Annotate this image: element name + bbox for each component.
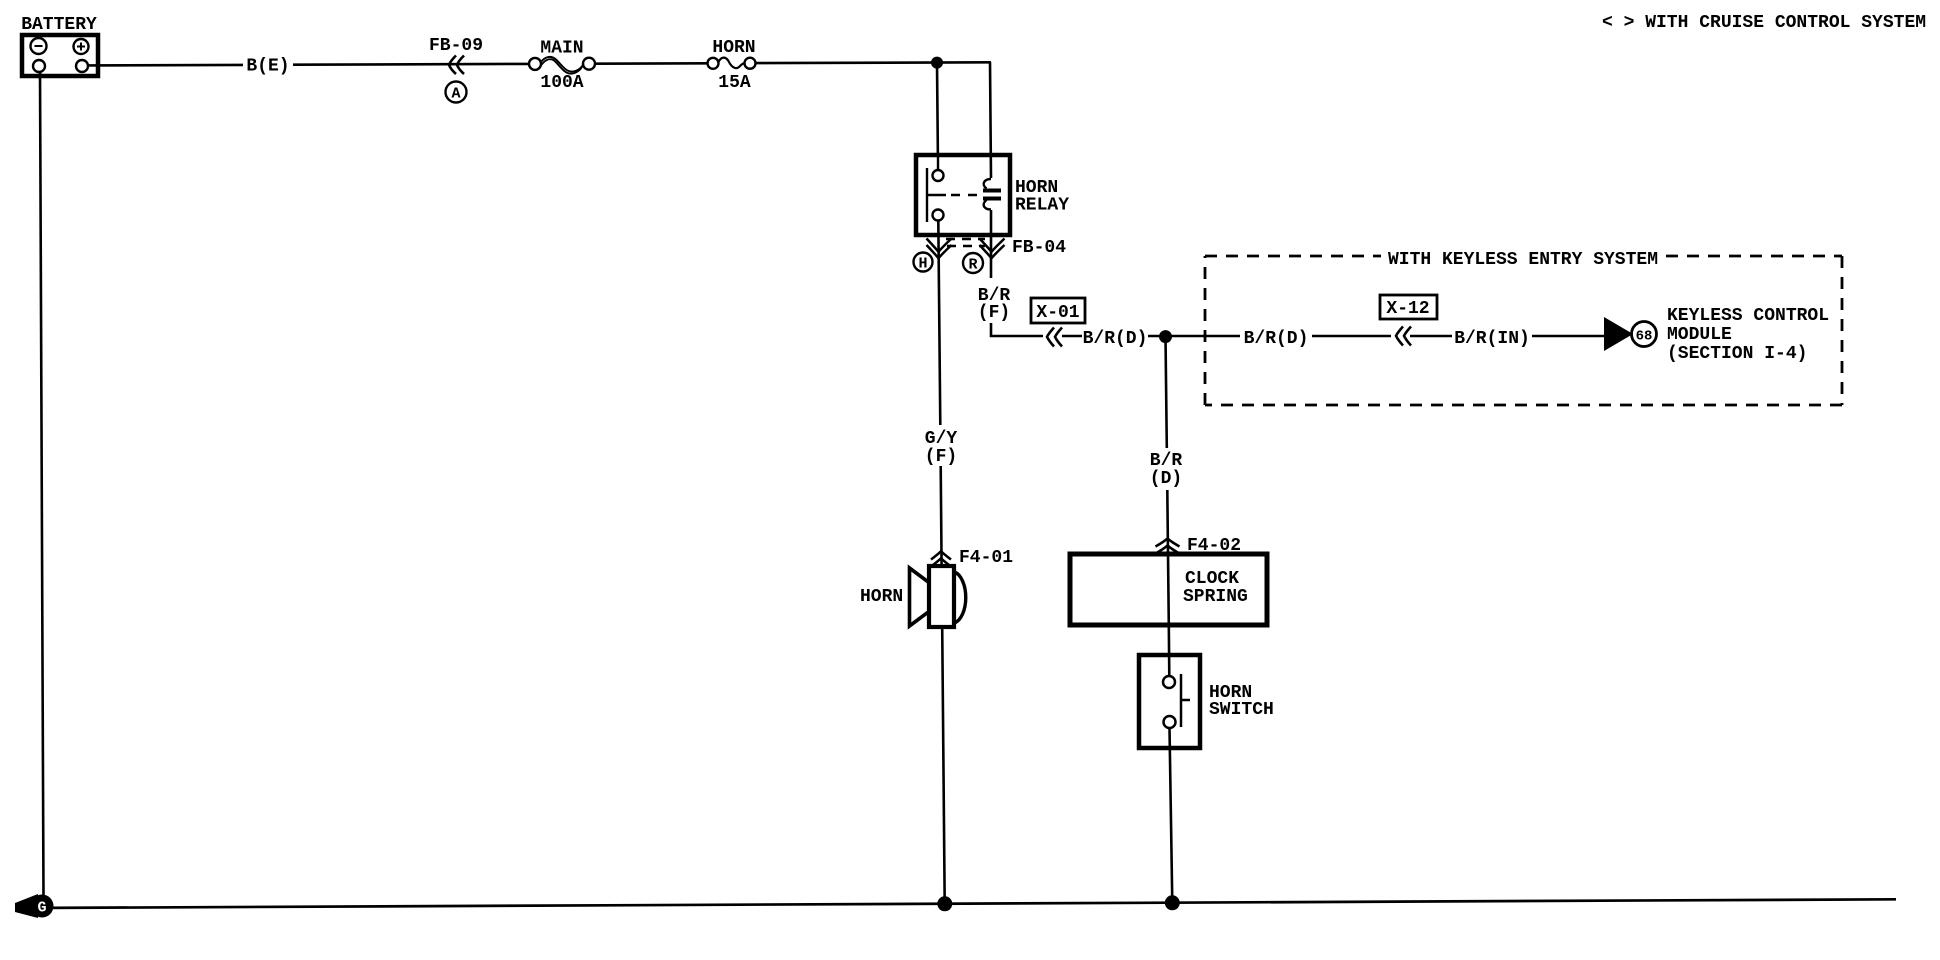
connector FB-04 [927,238,1067,258]
svg-text:HORN: HORN [860,587,903,607]
svg-text:(SECTION I-4): (SECTION I-4) [1667,344,1807,364]
svg-text:MODULE: MODULE [1667,325,1732,345]
svg-text:CLOCK: CLOCK [1185,569,1239,589]
svg-text:X-12: X-12 [1386,299,1429,319]
fuse HORN 15A [708,38,756,93]
fusible link MAIN 100A [529,39,595,94]
connector X-12 [1380,295,1437,346]
connector FB-09 [429,36,483,74]
wire horn switch to ground bus [1170,728,1173,903]
horn switch [1139,655,1274,748]
svg-text:X-01: X-01 [1036,303,1079,323]
svg-text:F4-01: F4-01 [959,548,1013,568]
connector X-01 [1031,298,1085,347]
wire label to F4-02 [1166,490,1169,554]
svg-text:(F): (F) [925,447,957,467]
node A [446,82,467,103]
wire B(E) to MAIN fuse [293,63,529,66]
ground bus wire [50,899,1896,908]
svg-text:WITH KEYLESS ENTRY SYSTEM: WITH KEYLESS ENTRY SYSTEM [1388,250,1658,270]
svg-text:B/R: B/R [1150,451,1183,471]
svg-text:B/R(D): B/R(D) [1083,329,1148,349]
wire battery negative to ground [40,72,44,896]
junction dot at relay branch [931,57,943,69]
connector F4-01 [931,548,1013,568]
svg-text:68: 68 [1636,329,1653,345]
wire coil to X-01 elbow [991,323,1043,336]
svg-text:KEYLESS CONTROL: KEYLESS CONTROL [1667,306,1829,326]
svg-text:(F): (F) [978,303,1010,323]
junction dot horn switch at ground bus [1165,895,1180,910]
svg-text:SWITCH: SWITCH [1209,700,1274,720]
wire junction down to relay contact [936,63,940,157]
wire junction down to clock spring [1166,337,1167,448]
wire label to horn [939,466,942,566]
wire to keyless module [1532,335,1606,338]
svg-text:MAIN: MAIN [540,39,583,59]
keyless control module label [1667,306,1829,364]
wire HORN fuse to relay branch [755,61,991,64]
wire horn to ground bus [942,627,945,904]
svg-text:100A: 100A [540,73,583,93]
wire MAIN fuse to HORN fuse [595,62,708,65]
wire battery positive to B(E) label [88,64,243,67]
svg-text:FB-09: FB-09 [429,36,483,56]
ground G [15,894,54,918]
svg-text:R: R [968,257,977,274]
dashed enclosure: with keyless entry system [1205,250,1842,405]
wire relay contact output down [938,220,940,425]
svg-text:G: G [37,900,46,917]
wire to relay coil [990,62,991,178]
horn [860,566,966,627]
svg-text:B/R(IN): B/R(IN) [1454,329,1530,349]
wire relay coil output down [990,210,993,278]
connector F4-02 [1156,536,1242,556]
battery B1 [21,15,98,76]
horn relay [916,155,1069,235]
wire to X-12 [1312,335,1391,338]
svg-text:G/Y: G/Y [925,429,958,449]
svg-text:15A: 15A [718,73,751,93]
svg-text:B(E): B(E) [246,57,289,77]
svg-text:BATTERY: BATTERY [21,15,97,35]
wire clock spring to horn switch [1168,625,1171,676]
svg-text:(D): (D) [1150,469,1182,489]
wire X-01 to label [1062,335,1082,338]
keyless control module input arrow [1604,317,1633,351]
svg-text:HORN: HORN [712,38,755,58]
svg-text:A: A [451,86,460,103]
svg-text:H: H [918,256,927,273]
svg-text:SPRING: SPRING [1183,587,1248,607]
junction dot horn at ground bus [937,896,952,911]
pin H [914,253,933,273]
wire label to junction [1148,335,1240,338]
pin R [963,253,983,274]
wire X-12 to label [1410,335,1452,338]
svg-text:B/R(D): B/R(D) [1244,329,1309,349]
svg-text:RELAY: RELAY [1015,196,1069,216]
junction dot clock spring branch [1159,330,1172,343]
pin 68 [1632,322,1657,347]
clock spring [1070,554,1267,625]
svg-text:< > WITH CRUISE CONTROL SYSTEM: < > WITH CRUISE CONTROL SYSTEM [1602,13,1926,33]
svg-text:FB-04: FB-04 [1012,238,1066,258]
